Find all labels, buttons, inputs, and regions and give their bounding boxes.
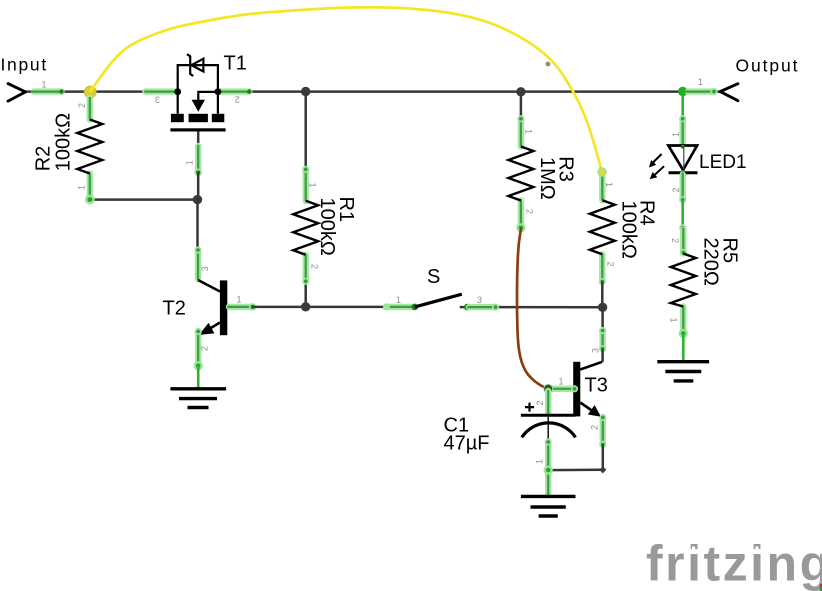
node Input connector [8, 84, 26, 102]
svg-text:1: 1 [237, 295, 242, 305]
svg-text:2: 2 [606, 262, 616, 267]
resistor R5 [671, 228, 696, 361]
ground below T2 [170, 389, 226, 408]
svg-text:S: S [427, 266, 440, 288]
svg-text:R2: R2 [33, 146, 55, 172]
svg-text:3: 3 [477, 295, 482, 305]
svg-text:1: 1 [669, 318, 679, 323]
wire: node A down to T2 collector [196, 200, 199, 249]
svg-text:2: 2 [200, 346, 210, 351]
node T1 drain junction [174, 88, 181, 95]
svg-text:fritzing: fritzing [646, 536, 822, 591]
svg-text:100kΩ: 100kΩ [53, 113, 75, 171]
svg-text:2: 2 [535, 400, 545, 405]
svg-text:1: 1 [524, 129, 534, 134]
wire main bus: input to T1 pin3 [26, 90, 178, 93]
svg-text:2: 2 [525, 209, 535, 214]
svg-text:1: 1 [698, 77, 703, 87]
node Output connector [720, 84, 738, 101]
transistor T3 [548, 307, 606, 470]
node R1 bottom junction [301, 302, 310, 311]
wire leg: T2 base pin1 (green) [227, 303, 256, 311]
svg-text:100kΩ: 100kΩ [316, 198, 338, 256]
node T3 base junction [543, 384, 553, 394]
node yellow wire end at R4 pin1 [597, 167, 607, 177]
resistor R3 [508, 92, 533, 232]
wire: T1 gate to node A [197, 172, 200, 199]
svg-text:1: 1 [77, 185, 87, 190]
LED LED1 [649, 92, 698, 232]
resistor R1 [293, 92, 318, 307]
wire: T2 base to R1 bottom junction [253, 306, 306, 309]
svg-text:T3: T3 [585, 375, 608, 397]
svg-text:2: 2 [310, 264, 320, 269]
svg-text:1: 1 [604, 182, 614, 187]
bendpoint at T3 emitter wire corner [599, 466, 606, 473]
switch S [383, 294, 499, 311]
bendpoint on yellow wire [546, 62, 551, 67]
svg-text:2: 2 [77, 103, 87, 108]
svg-text:220Ω: 220Ω [700, 238, 722, 286]
svg-text:1: 1 [671, 132, 681, 137]
svg-text:100kΩ: 100kΩ [617, 201, 639, 259]
svg-text:1: 1 [42, 80, 47, 90]
svg-text:1: 1 [185, 160, 195, 165]
svg-text:1: 1 [396, 295, 401, 305]
wire leg: T1 pin2 (green) [218, 89, 251, 93]
svg-text:2: 2 [670, 238, 680, 243]
svg-text:47µF: 47µF [444, 433, 490, 455]
svg-text:3: 3 [591, 348, 601, 353]
svg-text:Input: Input [1, 55, 48, 75]
svg-text:3: 3 [200, 266, 210, 271]
svg-text:T2: T2 [163, 298, 186, 320]
wire: switch row to R4 junction [306, 306, 603, 309]
wire: R2 bottom to node A [90, 198, 198, 201]
svg-text:2: 2 [590, 425, 600, 430]
capacitor C1 [521, 390, 576, 495]
node R4 bottom junction [598, 303, 607, 312]
wire main bus: T1 pin2 to output [218, 90, 720, 93]
resistor R4 [590, 173, 615, 307]
node R1 top junction [301, 87, 310, 96]
svg-text:1: 1 [559, 377, 564, 387]
svg-text:1MΩ: 1MΩ [536, 157, 558, 200]
node junction (yellow) at input/R2 [84, 86, 96, 98]
svg-text:2: 2 [671, 187, 681, 192]
ground below R5 [657, 362, 709, 381]
wire leg: input pin (green) [31, 89, 64, 93]
svg-text:2: 2 [235, 95, 240, 105]
glow R2 pin1 end [85, 195, 95, 205]
wire yellow: input node to R4 pin1 [90, 7, 602, 172]
svg-text:T1: T1 [224, 53, 247, 75]
wire brown: R3 pin2 to T3 base node [517, 228, 548, 389]
wire leg: T1 pin3 (green) [144, 88, 177, 94]
svg-text:1: 1 [535, 459, 545, 464]
svg-text:3: 3 [155, 95, 160, 105]
node A junction (gate/R2/T2) [193, 195, 202, 204]
ground below C1 [521, 496, 576, 516]
transistor T1 (MOSFET) [170, 54, 225, 131]
wire: T3 emitter to C1 bottom [548, 469, 603, 472]
node Output junction (green) [678, 87, 687, 96]
node T1 source junction [215, 88, 222, 95]
svg-text:Output: Output [736, 56, 800, 76]
svg-text:1: 1 [308, 183, 318, 188]
svg-text:LED1: LED1 [699, 152, 747, 173]
wire leg: output pin (green) [683, 88, 718, 95]
transistor T2 [194, 246, 228, 387]
node R3 top junction [516, 87, 525, 96]
resistor R2 [77, 97, 102, 200]
wire leg: T1 gate pin1 (green) [194, 132, 202, 177]
